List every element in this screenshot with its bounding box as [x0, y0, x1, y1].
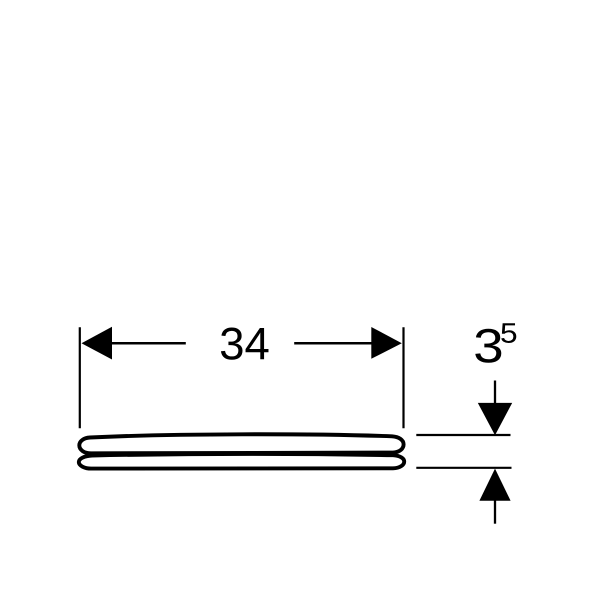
- vertical dimension line above down arrow: [494, 381, 496, 405]
- extension line left of 34 dimension: [79, 327, 81, 428]
- lid top slab profile: [79, 434, 403, 453]
- vertical dimension line below up arrow: [494, 500, 496, 524]
- up arrowhead of 35 dimension: [479, 469, 510, 501]
- top extension line of 35 dimension: [416, 434, 510, 436]
- dimension text 3 with superscript 5: [475, 329, 501, 363]
- extension line right of 34 dimension: [402, 327, 404, 428]
- down arrowhead of 35 dimension: [478, 403, 512, 435]
- dimension text 34: [221, 328, 269, 360]
- lid bottom slab profile: [79, 454, 404, 469]
- dimension line right segment of 34: [294, 342, 371, 345]
- left arrowhead of 34 dimension: [82, 327, 113, 360]
- superscript 5 of thickness dimension: [501, 323, 516, 343]
- dimension line left segment of 34: [111, 342, 186, 345]
- bottom extension line of 35 dimension: [416, 467, 511, 469]
- right arrowhead of 34 dimension: [371, 327, 402, 359]
